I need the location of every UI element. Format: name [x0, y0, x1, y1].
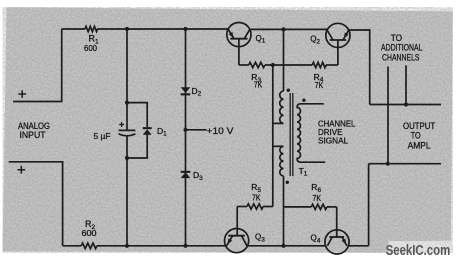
- capacitor C1 5uF curved plate: [119, 134, 136, 136]
- junction dot top rail D2 branch: [183, 27, 187, 31]
- svg-text:+10 V: +10 V: [207, 126, 235, 137]
- wire output corner down to bottom rail: [368, 164, 370, 246]
- junction dot top rail cap branch: [125, 27, 129, 31]
- wire capacitor branch upper: [126, 29, 128, 130]
- wire capacitor branch lower: [126, 136, 128, 246]
- junction dot bottom rail D3 branch: [183, 244, 187, 248]
- wire bottom rail right segment: [349, 245, 369, 247]
- resistor R6: [311, 204, 327, 209]
- svg-text:SIGNAL: SIGNAL: [318, 135, 348, 145]
- junction dot collector rail: [281, 27, 285, 31]
- resistor R2: [81, 243, 97, 248]
- svg-text:600: 600: [84, 43, 97, 53]
- wire +10V stub: [186, 129, 207, 131]
- junction dot output line: [386, 162, 390, 166]
- wire Q1 base lead: [238, 39, 240, 65]
- wire center-tap line: [272, 65, 274, 207]
- wire D2 D3 branch: [185, 29, 187, 246]
- wire R6 right segment: [327, 206, 337, 208]
- wire top rail right segment to corner: [349, 30, 370, 105]
- junction dot D1 bottom node: [125, 156, 129, 160]
- wire primary upper winding bottom tap: [273, 122, 284, 124]
- wire bottom rail left segment: [63, 245, 82, 247]
- wire D1 loop bottom: [127, 134, 147, 158]
- wire top rail left segment: [62, 28, 85, 30]
- wire R5 to center-tap line: [263, 206, 273, 208]
- wire additional-channels stub A: [387, 67, 389, 164]
- svg-text:INPUT: INPUT: [20, 130, 46, 140]
- capacitor C1 5uF top plate: [119, 129, 136, 131]
- svg-text:SeekIC.com: SeekIC.com: [386, 243, 451, 259]
- junction dot D1 top node: [125, 101, 129, 105]
- scan margin fade bottom right: [388, 241, 452, 248]
- svg-text:7K: 7K: [252, 193, 261, 203]
- wire Q3 base lead: [236, 207, 238, 236]
- transformer phase dot secondary top: [302, 99, 305, 102]
- wire analog input bottom lead: [9, 162, 63, 246]
- transistor Q4: [325, 230, 349, 254]
- wire base line R3 to R4: [265, 64, 312, 66]
- svg-text:7K: 7K: [254, 80, 263, 90]
- plus terminal input top: [18, 90, 26, 98]
- svg-text:TO: TO: [411, 131, 421, 141]
- svg-text:TO: TO: [391, 33, 402, 43]
- junction dot +10V node: [183, 128, 187, 132]
- diode D3: [181, 171, 191, 178]
- plus terminal input bottom: [18, 166, 26, 174]
- junction dot additional channels: [404, 102, 408, 106]
- transformer phase dot primary bottom: [286, 181, 289, 184]
- svg-text:7K: 7K: [315, 80, 324, 90]
- wire top rail middle segment: [98, 28, 229, 30]
- transformer T1 secondary winding: [297, 104, 325, 162]
- wire primary lower winding top tap: [273, 145, 284, 147]
- svg-text:ADDITIONAL: ADDITIONAL: [381, 43, 423, 53]
- wire Q4 base lead: [336, 207, 338, 237]
- transistor Q3: [225, 229, 249, 253]
- wire collector junction down to transformer primary: [283, 29, 285, 91]
- wire top rail collector segment Q1-Q2: [250, 28, 327, 30]
- wire analog input top lead: [13, 29, 62, 102]
- svg-text:CHANNELS: CHANNELS: [382, 52, 420, 62]
- wire R5 line: [237, 206, 247, 208]
- junction dot R3 R4 center tap: [271, 63, 275, 67]
- junction dot bottom rail primary lead: [281, 244, 285, 248]
- wire R6 line: [284, 206, 312, 208]
- wire Q2 base lead: [337, 40, 339, 65]
- diode D2: [181, 87, 191, 95]
- diode D1: [143, 127, 152, 135]
- svg-text:OUTPUT: OUTPUT: [403, 121, 436, 131]
- transistor Q2: [326, 23, 350, 47]
- wire output to ampl horizontal: [369, 163, 441, 165]
- plus polarity capacitor: [119, 122, 124, 127]
- resistor R3: [249, 62, 265, 67]
- wire bottom rail middle segment: [97, 245, 226, 247]
- resistor R1: [85, 26, 98, 31]
- wire primary bottom lead to bottom rail: [283, 176, 285, 246]
- transformer T1 primary upper winding: [280, 91, 284, 123]
- svg-text:7K: 7K: [313, 193, 322, 203]
- junction dot bottom rail cap branch: [125, 244, 129, 248]
- wire D1 loop top: [127, 103, 147, 127]
- transformer phase dot primary top: [287, 89, 290, 92]
- transistor Q1: [227, 22, 251, 46]
- wire base line right of R4: [326, 64, 338, 66]
- wire to additional channels horizontal: [370, 104, 441, 106]
- wire base line left of R3: [239, 64, 249, 66]
- resistor R5: [247, 204, 263, 209]
- svg-text:600: 600: [82, 228, 97, 238]
- wire bottom rail Q3-Q4 segment: [248, 245, 326, 247]
- svg-text:5 µF: 5 µF: [94, 131, 111, 141]
- resistor R4: [312, 62, 326, 67]
- transformer T1 core: [290, 93, 293, 176]
- wire additional-channels stub B: [405, 65, 407, 104]
- transformer T1 primary lower winding: [280, 146, 284, 176]
- svg-text:AMPL: AMPL: [408, 141, 431, 151]
